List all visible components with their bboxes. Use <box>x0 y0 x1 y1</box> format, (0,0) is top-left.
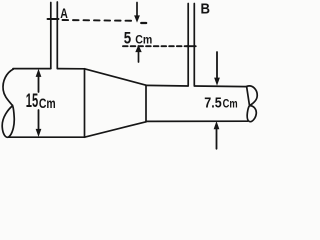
piezometer tube A right wall <box>56 2 58 68</box>
broken-end curl of narrow pipe <box>247 86 258 122</box>
upper dashed datum line (level of A) <box>63 19 136 22</box>
label 7.5Cm <box>204 95 237 111</box>
svg-text:7.5: 7.5 <box>204 95 221 111</box>
narrow pipe top wall (left of tube B) <box>146 84 188 87</box>
svg-text:Cm: Cm <box>135 33 152 47</box>
wide pipe top wall (right of tube A) <box>57 68 84 70</box>
label 15Cm <box>26 91 56 112</box>
svg-text:Cm: Cm <box>223 98 238 111</box>
vertical joint at throat <box>145 85 147 122</box>
broken-end curl of wide pipe (lower leaf) <box>2 106 14 138</box>
wide pipe top wall (left of tube A) <box>13 68 51 70</box>
7.5cm dimension down arrow <box>215 52 220 85</box>
svg-text:15: 15 <box>26 91 39 112</box>
svg-text:Cm: Cm <box>39 96 56 111</box>
broken-end curl of wide pipe (upper arc) <box>3 69 13 106</box>
wide pipe bottom wall <box>8 136 85 138</box>
piezometer tube B right wall <box>193 4 195 86</box>
piezometer tube A left wall <box>50 3 52 69</box>
15cm dimension arrow lower half <box>36 110 41 136</box>
lower dashed datum line (level of B) <box>123 45 188 47</box>
piezometer tube B left wall <box>187 4 189 86</box>
5cm dimension up arrow <box>136 46 141 62</box>
7.5cm dimension up arrow <box>214 122 219 149</box>
narrow pipe bottom wall <box>146 120 248 122</box>
label 5 Cm <box>124 29 153 48</box>
svg-text:B: B <box>201 2 211 18</box>
svg-text:A: A <box>60 6 68 21</box>
converging cone top wall <box>85 69 147 85</box>
final dash of upper datum line <box>141 22 146 24</box>
converging cone bottom wall <box>85 122 147 137</box>
narrow pipe top wall (right of tube B) <box>194 85 247 88</box>
15cm dimension arrow upper half <box>36 70 41 92</box>
vertical joint at end of wide section <box>84 69 86 137</box>
svg-text:5: 5 <box>124 29 131 48</box>
water level mark in tube B <box>187 45 196 47</box>
5cm dimension down arrow <box>135 3 140 22</box>
water level mark in tube A <box>48 18 59 20</box>
